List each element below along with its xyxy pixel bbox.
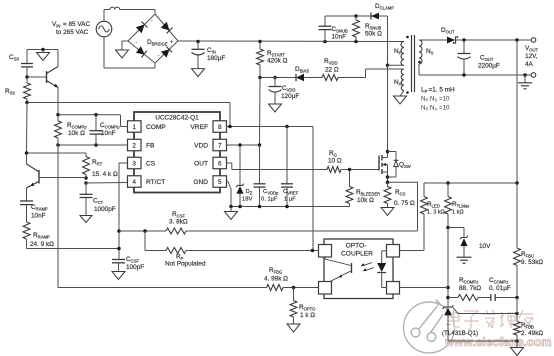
- wire: VREF pin to right: [227, 125, 314, 129]
- wire: clamp to drain node: [387, 16, 389, 65]
- svg-text:4. 99k Ω: 4. 99k Ω: [264, 276, 288, 283]
- opto pad anode: [387, 245, 400, 258]
- svg-text:120µF: 120µF: [281, 93, 299, 100]
- wire: NS bottom / output - rail: [419, 64, 531, 77]
- ground (CIN): [192, 69, 205, 77]
- diode DBIAS: [275, 66, 322, 81]
- svg-text:88. 7kΩ: 88. 7kΩ: [459, 285, 481, 292]
- svg-text:10k Ω: 10k Ω: [357, 197, 374, 204]
- resistor RSTART: [257, 42, 288, 78]
- ground (soft-start rail): [37, 50, 50, 61]
- svg-text:24. 9 kΩ: 24. 9 kΩ: [30, 241, 54, 248]
- svg-text:UCC28C42-Q1: UCC28C42-Q1: [155, 115, 199, 122]
- terminal VOUT+: [531, 38, 536, 43]
- transformer secondary NS: [418, 40, 433, 64]
- svg-text:100pF: 100pF: [126, 264, 144, 271]
- wire: VREF rail down to Q2 / RRT feed: [26, 103, 29, 154]
- svg-text:10nF: 10nF: [332, 34, 347, 41]
- wire: primary bottom to drain: [388, 65, 405, 151]
- pin 7 VDD: [194, 139, 226, 151]
- wire: ramp injection to CS node: [27, 248, 120, 250]
- opto pad collector: [319, 245, 332, 258]
- opto-coupler U3 body: [324, 239, 393, 299]
- resistor RFBU: [514, 183, 544, 298]
- svg-text:CVREF: CVREF: [283, 189, 299, 195]
- ground (CCT): [80, 216, 92, 223]
- node: CSS/RSS/Q1 base: [25, 75, 29, 79]
- svg-text:0. 01µF: 0. 01µF: [489, 285, 511, 292]
- capacitor CCOMPz: [489, 277, 519, 301]
- capacitor COUT: [458, 40, 500, 75]
- zener DZ 18V: [236, 145, 252, 207]
- capacitor CVREF: [281, 127, 299, 207]
- wire: VOUT sense line: [516, 40, 518, 183]
- resistor RP (not populated): [145, 231, 313, 268]
- resistor ROPTO: [290, 288, 316, 325]
- wire: COMP pin to RCOMPp/CCOMPp: [56, 113, 127, 126]
- svg-text:OUT: OUT: [194, 160, 208, 167]
- resistor RCOMPz: [448, 277, 491, 301]
- svg-text:15. 4 k Ω: 15. 4 k Ω: [92, 171, 118, 178]
- capacitor CSS: [9, 50, 33, 78]
- svg-text:GND: GND: [193, 179, 208, 186]
- ground (RFBB): [511, 348, 524, 356]
- wire: OUT pin to RG: [227, 163, 328, 170]
- wire: bridge + to transformer primary (DC rail): [178, 40, 404, 44]
- svg-text:7: 7: [218, 142, 222, 149]
- wire: VDD pin row: [227, 143, 262, 147]
- wire: NS top to DOUT: [419, 39, 447, 41]
- svg-text:2. 49kΩ: 2. 49kΩ: [521, 330, 543, 337]
- svg-text:VREF: VREF: [190, 124, 208, 131]
- shunt regulator TL431B-Q1: [442, 305, 519, 342]
- opto LED: [377, 251, 386, 288]
- wire: GND pin to ground rail: [227, 182, 232, 207]
- ground (10V zener): [457, 257, 472, 263]
- svg-text:Not Populated: Not Populated: [165, 261, 206, 268]
- svg-text:8: 8: [218, 124, 222, 131]
- ground rail (primary): [229, 205, 348, 209]
- resistor RLED: [400, 197, 445, 251]
- svg-text:0. 1µF: 0. 1µF: [261, 197, 278, 203]
- svg-text:-: -: [158, 53, 160, 59]
- diode bridge DBRIDGE: [128, 14, 178, 63]
- svg-text:www.elecfans.com: www.elecfans.com: [444, 335, 552, 349]
- svg-text:2: 2: [132, 142, 136, 149]
- svg-text:FB: FB: [146, 142, 155, 149]
- svg-text:+: +: [170, 40, 173, 46]
- pin 2 FB: [128, 139, 156, 151]
- svg-text:420k Ω: 420k Ω: [267, 58, 288, 65]
- pin 1 COMP: [128, 121, 167, 133]
- transformer labels: [421, 87, 455, 112]
- wire: FB pin row: [56, 143, 127, 147]
- ground (bridge return): [116, 41, 129, 58]
- svg-text:3: 3: [132, 160, 136, 167]
- svg-text:-: -: [136, 40, 138, 46]
- node: drain / primary bottom: [386, 64, 390, 68]
- terminal VOUT-: [531, 73, 536, 78]
- node: bias supply: [258, 76, 277, 80]
- ground (GND pin): [225, 207, 238, 220]
- svg-text:1 µF: 1 µF: [284, 197, 296, 203]
- resistor RCS: [384, 182, 415, 207]
- svg-text:22 Ω: 22 Ω: [325, 67, 339, 74]
- ground (CCSF): [112, 272, 125, 280]
- svg-text:0. 75 Ω: 0. 75 Ω: [394, 200, 415, 207]
- pin 6 OUT: [194, 157, 226, 169]
- wire: fuse to bridge top: [120, 10, 155, 15]
- capacitor CVDDp: [254, 145, 280, 207]
- svg-text:COMP: COMP: [146, 124, 166, 131]
- svg-text:10V: 10V: [479, 243, 491, 250]
- wire: RT node to pin 4: [86, 182, 128, 185]
- ground (RCS): [381, 208, 394, 216]
- transistor Q1: [27, 50, 58, 115]
- pin 5 GND: [193, 176, 226, 188]
- wire: VREF drop to opto collector: [311, 127, 319, 253]
- svg-text:2200µF: 2200µF: [478, 63, 500, 70]
- svg-text:3. 8kΩ: 3. 8kΩ: [169, 219, 188, 226]
- resistor RCOMPp: [55, 115, 88, 145]
- transistor Q2: [27, 153, 87, 201]
- svg-text:10 Ω: 10 Ω: [328, 158, 342, 165]
- watermark: [404, 300, 552, 353]
- resistor RBLEEDER: [346, 170, 380, 207]
- svg-text:VDD: VDD: [194, 142, 208, 149]
- pin 3 CS: [128, 157, 156, 169]
- svg-text:(TL431B-Q1): (TL431B-Q1): [442, 330, 478, 337]
- svg-text:18V: 18V: [242, 197, 252, 203]
- capacitor CRAMP: [20, 201, 48, 222]
- transformer core: [412, 35, 415, 92]
- svg-text:10nF: 10nF: [101, 130, 116, 137]
- svg-text:1. 3 kΩ: 1. 3 kΩ: [427, 210, 445, 216]
- ground (CVDD): [269, 104, 282, 112]
- resistor RSNUB: [353, 16, 382, 42]
- opto pad cathode: [387, 282, 400, 295]
- wire: snubber top: [325, 14, 371, 18]
- transformer primary NP: [394, 36, 409, 66]
- svg-text:6: 6: [218, 160, 222, 167]
- resistor RVDD: [322, 58, 339, 81]
- pin 8 VREF: [190, 121, 226, 133]
- resistor RTLbias: [445, 183, 470, 307]
- wire: FB pin down to feedback line: [58, 145, 267, 288]
- wire: opto cathode to TL431: [400, 287, 449, 289]
- svg-text:10nF: 10nF: [31, 213, 46, 220]
- svg-text:-: -: [151, 18, 153, 24]
- op-amp U1 UCC28C42-Q1 body: [134, 112, 220, 193]
- opto light arrows: [361, 263, 375, 272]
- svg-text:50k Ω: 50k Ω: [365, 31, 382, 38]
- ground (output): [518, 75, 532, 89]
- wire: bias node to VDD pin (crosses VREF wire): [259, 78, 262, 146]
- svg-text:CVDDp: CVDDp: [263, 189, 279, 195]
- svg-text:10k Ω: 10k Ω: [68, 130, 85, 137]
- svg-text:5: 5: [218, 179, 222, 186]
- svg-text:1: 1: [132, 124, 136, 131]
- svg-text:1000pF: 1000pF: [94, 206, 116, 213]
- wire: RCSF to current sense: [186, 182, 418, 231]
- capacitor CVDD: [260, 78, 299, 105]
- svg-text:DZ: DZ: [246, 189, 253, 195]
- wire: VREF rail (RSS to VREF pin): [27, 103, 230, 127]
- zener 10V: [448, 228, 491, 257]
- pin 4 RT/CT: [128, 176, 166, 188]
- resistor RFBG: [264, 267, 319, 291]
- capacitor CIN: [192, 42, 226, 69]
- diode DOUT: [441, 27, 464, 44]
- resistor RFBB: [514, 298, 544, 348]
- svg-text:1 kΩ: 1 kΩ: [452, 210, 464, 216]
- svg-text:CS: CS: [146, 160, 156, 167]
- svg-text:4: 4: [132, 179, 136, 186]
- wire: source top to fuse: [104, 10, 110, 22]
- svg-text:to 265 VAC: to 265 VAC: [56, 29, 89, 36]
- label VOUT: [525, 45, 539, 68]
- diode DCLAMP: [371, 3, 394, 19]
- resistor RG: [327, 150, 379, 173]
- svg-text:OPTO-: OPTO-: [346, 243, 367, 250]
- wire: output + rail: [462, 38, 531, 42]
- opto phototransistor: [325, 257, 352, 282]
- capacitor CCOMPp: [90, 115, 121, 145]
- wire: top rail to CSS/Q1 collector ground: [27, 48, 58, 52]
- resistor RRAMP: [23, 222, 54, 249]
- wire: VOUT to RLED/RTLbias: [424, 181, 519, 196]
- node: RT/CT: [84, 176, 88, 185]
- ground (NA): [394, 91, 407, 104]
- opto pad emitter: [319, 282, 332, 295]
- svg-text:180µF: 180µF: [207, 55, 225, 62]
- svg-text:=1. 5 mH: =1. 5 mH: [429, 87, 455, 94]
- fuse: [110, 7, 120, 9]
- resistor RRT: [83, 153, 118, 178]
- wire: CS pin to filter node: [117, 163, 127, 260]
- svg-text:9. 53kΩ: 9. 53kΩ: [521, 259, 543, 266]
- node: RSS bottom / VREF rail: [25, 101, 29, 105]
- capacitor CSNUB: [319, 16, 348, 42]
- AC source VIN: [52, 21, 112, 37]
- svg-text:RT/CT: RT/CT: [146, 179, 165, 186]
- transformer aux winding NA: [394, 69, 409, 94]
- svg-text:= 85 VAC: = 85 VAC: [63, 21, 90, 28]
- svg-text:1 k Ω: 1 k Ω: [300, 312, 315, 319]
- wire: VREF to RRT: [25, 151, 86, 155]
- wire: source bottom to bridge bottom: [104, 37, 155, 68]
- svg-text:COUPLER: COUPLER: [341, 251, 373, 258]
- capacitor CCSF: [112, 256, 144, 272]
- wire: RVDD to NA winding: [338, 69, 404, 78]
- ground (ROPTO): [287, 324, 300, 332]
- svg-text:4A: 4A: [525, 61, 534, 68]
- resistor RCSF: [119, 211, 188, 234]
- capacitor CCT: [80, 183, 116, 216]
- resistor RSS: [5, 77, 30, 103]
- mosfet QSW: [379, 150, 411, 187]
- svg-text:12V,: 12V,: [525, 53, 538, 60]
